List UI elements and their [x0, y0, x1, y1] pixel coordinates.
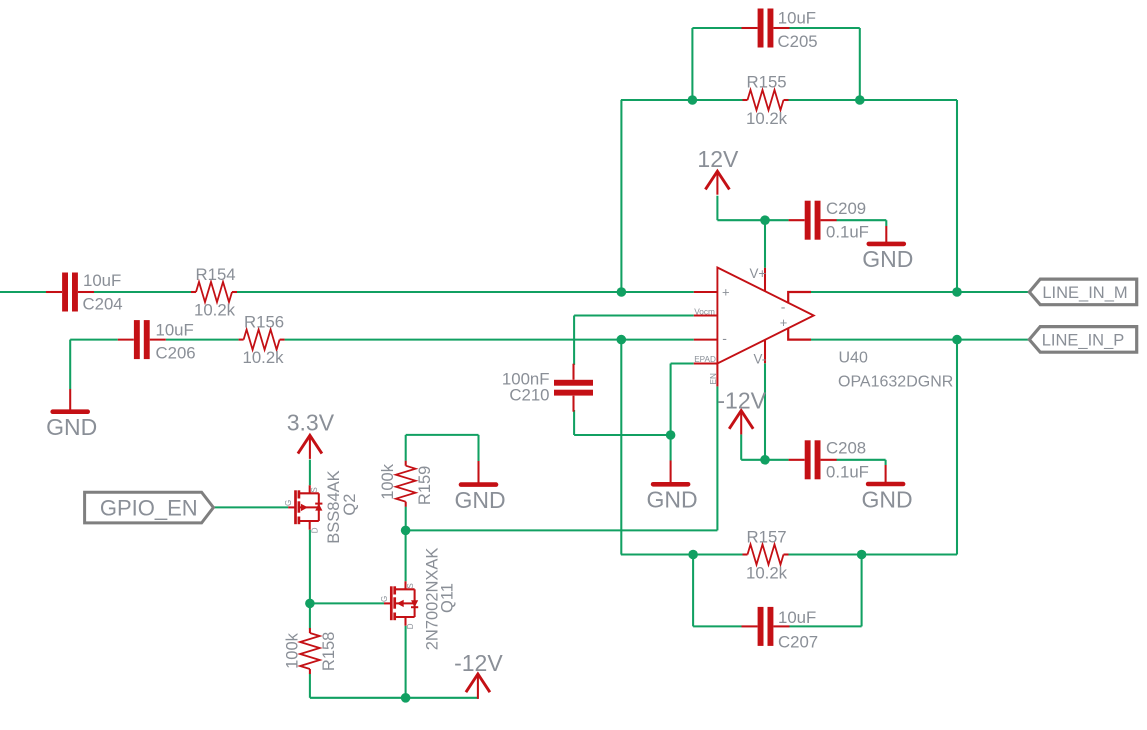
wire — [620, 100, 622, 292]
supply 3.3V — [287, 410, 335, 459]
wire — [692, 27, 741, 29]
wire — [691, 28, 693, 100]
svg-text:10uF: 10uF — [83, 271, 121, 290]
capacitor C209 — [789, 199, 869, 242]
svg-text:C205: C205 — [778, 32, 818, 51]
wire — [309, 674, 311, 698]
capacitor C210 — [502, 364, 593, 412]
capacitor C207 — [742, 607, 819, 651]
wire — [956, 100, 958, 292]
svg-text:-12V: -12V — [717, 387, 766, 413]
wire — [477, 435, 479, 461]
junction — [688, 95, 698, 105]
svg-text:+: + — [722, 284, 730, 299]
ground — [454, 461, 505, 513]
svg-text:LINE_IN_P: LINE_IN_P — [1042, 331, 1125, 349]
svg-text:10uF: 10uF — [778, 9, 816, 28]
wire — [764, 220, 766, 268]
junction — [952, 335, 962, 345]
resistor R154 — [191, 265, 237, 319]
wire — [811, 339, 1029, 341]
wire — [574, 314, 694, 316]
transistor Q2 — [284, 470, 359, 543]
svg-text:GPIO_EN: GPIO_EN — [100, 495, 198, 520]
svg-text:C208: C208 — [826, 439, 866, 458]
wire — [671, 362, 694, 364]
svg-text:C204: C204 — [83, 295, 123, 314]
net flag LINE_IN_M — [1029, 279, 1136, 305]
wire — [94, 291, 191, 293]
wire — [670, 364, 672, 436]
svg-text:Vocm: Vocm — [694, 307, 715, 317]
supply -12V — [717, 387, 766, 434]
wire — [859, 28, 861, 100]
wire — [405, 435, 407, 461]
svg-text:C206: C206 — [156, 343, 196, 362]
svg-text:R155: R155 — [747, 73, 787, 92]
svg-text:Q11: Q11 — [439, 583, 457, 613]
transistor Q11 — [380, 548, 457, 651]
resistor R158 — [283, 628, 338, 674]
svg-text:3.3V: 3.3V — [287, 410, 335, 436]
wire — [309, 530, 311, 604]
junction — [401, 526, 411, 536]
wire — [573, 410, 575, 435]
svg-text:C210: C210 — [509, 385, 549, 404]
wire — [310, 697, 478, 699]
junction — [857, 550, 867, 560]
wire — [166, 339, 239, 341]
svg-text:10uF: 10uF — [778, 608, 816, 627]
svg-text:10.2k: 10.2k — [746, 109, 788, 128]
svg-text:U40: U40 — [839, 350, 868, 367]
svg-text:V+: V+ — [750, 266, 767, 281]
svg-text:LINE_IN_M: LINE_IN_M — [1042, 284, 1127, 302]
wire — [620, 340, 622, 555]
svg-text:Q2: Q2 — [341, 494, 359, 516]
wire — [405, 507, 407, 531]
svg-text:D: D — [406, 623, 415, 629]
wire — [405, 530, 407, 581]
svg-text:R154: R154 — [196, 265, 236, 284]
svg-text:R158: R158 — [320, 632, 338, 671]
svg-text:+: + — [780, 315, 788, 330]
wire — [789, 99, 958, 101]
supply -12V — [454, 650, 503, 699]
wire — [621, 99, 743, 101]
wire — [670, 435, 672, 461]
svg-text:10uF: 10uF — [156, 320, 194, 339]
svg-text:R156: R156 — [244, 313, 284, 332]
wire — [764, 363, 766, 460]
wire — [574, 434, 671, 436]
junction — [666, 430, 676, 440]
svg-text:EPAD: EPAD — [694, 355, 716, 364]
junction — [401, 693, 411, 703]
svg-text:GND: GND — [862, 246, 913, 272]
wire — [717, 219, 788, 221]
junction — [855, 95, 865, 105]
wire — [214, 506, 288, 508]
capacitor C205 — [742, 9, 818, 52]
wire — [285, 339, 694, 341]
svg-text:100k: 100k — [283, 632, 301, 669]
svg-text:10.2k: 10.2k — [746, 563, 788, 582]
net flag GPIO_EN — [85, 492, 214, 523]
capacitor C208 — [789, 439, 869, 482]
svg-text:-: - — [722, 330, 727, 346]
wire — [790, 27, 860, 29]
junction — [305, 599, 315, 609]
svg-text:R157: R157 — [747, 527, 787, 546]
wire — [836, 219, 886, 221]
svg-text:0.1uF: 0.1uF — [826, 462, 869, 481]
svg-text:R159: R159 — [416, 466, 434, 505]
svg-text:G: G — [284, 500, 293, 506]
wire — [237, 291, 694, 293]
wire — [836, 459, 885, 461]
wire — [309, 603, 311, 628]
wire — [716, 386, 718, 530]
junction — [688, 550, 698, 560]
svg-text:C207: C207 — [778, 632, 818, 651]
wire — [406, 529, 718, 531]
svg-text:100k: 100k — [379, 463, 397, 500]
wire — [406, 434, 479, 436]
resistor R156 — [239, 313, 285, 368]
svg-text:D: D — [310, 527, 319, 533]
supply 12V — [697, 146, 739, 195]
wire — [310, 602, 384, 604]
svg-text:-12V: -12V — [454, 650, 503, 676]
junction — [760, 215, 770, 225]
wire — [621, 553, 743, 555]
svg-text:EN: EN — [709, 373, 718, 384]
svg-text:10.2k: 10.2k — [194, 300, 236, 319]
junction — [952, 287, 962, 297]
svg-text:OPA1632DGNR: OPA1632DGNR — [838, 373, 953, 390]
net flag LINE_IN_P — [1029, 327, 1136, 353]
wire — [885, 460, 887, 465]
wire — [573, 316, 575, 365]
wire — [69, 340, 71, 389]
wire — [741, 459, 788, 461]
wire — [309, 460, 311, 486]
svg-text:S: S — [310, 487, 319, 492]
ground — [647, 461, 698, 513]
svg-text:0.1uF: 0.1uF — [826, 223, 869, 242]
wire — [692, 555, 694, 627]
svg-text:GND: GND — [46, 414, 97, 440]
op-amp U40 — [694, 266, 954, 390]
wire — [811, 291, 1029, 293]
svg-text:GND: GND — [647, 487, 698, 513]
wire — [861, 555, 863, 627]
wire — [405, 626, 407, 698]
junction — [617, 335, 627, 345]
resistor R159 — [379, 461, 434, 507]
junction — [760, 455, 770, 465]
wire — [740, 434, 742, 459]
svg-text:-: - — [781, 299, 786, 315]
svg-text:G: G — [380, 596, 389, 602]
wire — [0, 291, 46, 293]
wire — [70, 339, 118, 341]
junction — [617, 287, 627, 297]
ground — [46, 389, 97, 440]
svg-text:12V: 12V — [697, 146, 739, 172]
svg-text:S: S — [406, 583, 415, 588]
resistor R157 — [743, 527, 789, 582]
capacitor C204 — [46, 271, 123, 314]
capacitor C206 — [118, 320, 196, 362]
ground — [862, 226, 913, 272]
svg-text:GND: GND — [454, 487, 505, 513]
svg-text:C209: C209 — [826, 199, 866, 218]
svg-text:10.2k: 10.2k — [243, 348, 285, 367]
wire — [789, 553, 958, 555]
wire — [956, 340, 958, 555]
svg-text:GND: GND — [862, 486, 913, 512]
svg-text:V-: V- — [754, 351, 767, 366]
wire — [885, 220, 887, 226]
wire — [716, 196, 718, 221]
resistor R155 — [743, 73, 789, 128]
ground — [862, 465, 913, 512]
wire — [790, 625, 862, 627]
wire — [693, 625, 741, 627]
